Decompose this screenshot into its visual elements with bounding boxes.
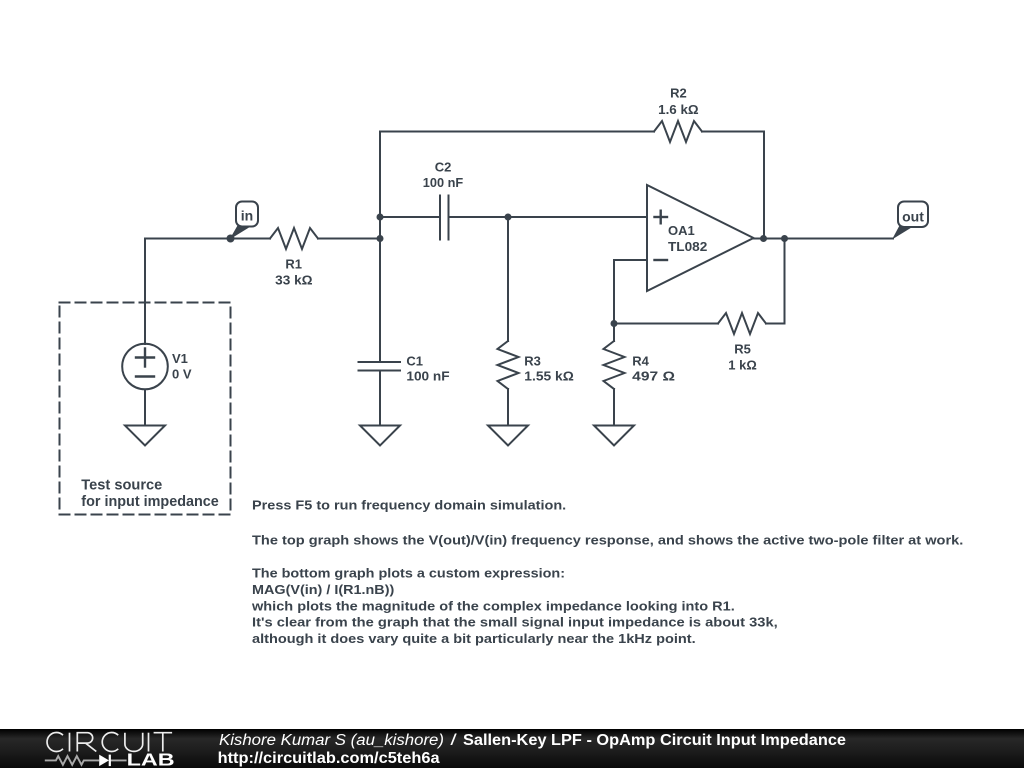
- wire node A down to R3: [507, 217, 509, 341]
- wire minus input down to R4: [613, 260, 615, 341]
- svg-text:Kishore Kumar S (au_kishore) /: Kishore Kumar S (au_kishore) / Sallen-Ke…: [219, 732, 846, 749]
- wire feedback node to R5: [614, 323, 718, 325]
- svg-text:R4: R4: [632, 353, 649, 368]
- resistor R4: [604, 341, 625, 389]
- wire V1 bottom lead: [144, 390, 146, 426]
- ground for R3: [488, 426, 528, 446]
- svg-text:Test source: Test source: [81, 478, 162, 494]
- ground for V1: [125, 426, 165, 446]
- svg-text:497 Ω: 497 Ω: [632, 369, 675, 384]
- wire output: [754, 238, 894, 240]
- wire top feedback right of R2: [702, 132, 764, 239]
- svg-text:MAG(V(in) / I(R1.nB)): MAG(V(in) / I(R1.nB)): [252, 582, 394, 597]
- svg-text:Press F5 to run frequency doma: Press F5 to run frequency domain simulat…: [252, 498, 566, 513]
- logo resistor-diode row: [45, 756, 127, 765]
- wire node B to C2 left plate: [380, 216, 440, 218]
- svg-text:V1: V1: [172, 351, 188, 366]
- svg-text:It's clear from the graph that: It's clear from the graph that the small…: [252, 615, 778, 630]
- capacitor C1: [359, 362, 401, 371]
- wire input horizontal left: [145, 238, 270, 240]
- svg-text:although it does vary quite a: although it does vary quite a bit partic…: [252, 631, 696, 646]
- junction node B lower: [377, 235, 384, 242]
- svg-text:The bottom graph plots a custo: The bottom graph plots a custom expressi…: [252, 566, 565, 581]
- svg-text:R5: R5: [734, 342, 751, 357]
- svg-text:which plots the magnitude of t: which plots the magnitude of the complex…: [251, 598, 735, 613]
- wire vertical node B to C1: [379, 132, 381, 363]
- flag box in: [236, 202, 258, 227]
- junction output 2: [781, 235, 788, 242]
- junction node A: [505, 214, 512, 221]
- svg-text:1.55 kΩ: 1.55 kΩ: [524, 369, 574, 384]
- junction node B upper: [377, 214, 384, 221]
- ground for R4: [594, 426, 634, 446]
- svg-text:for input impedance: for input impedance: [81, 494, 219, 510]
- wire top feedback left of R2: [380, 131, 654, 133]
- logo wordmark CIRCUIT: [47, 733, 172, 752]
- svg-text:100 nF: 100 nF: [423, 175, 463, 190]
- footer bar: [0, 729, 1024, 768]
- flag tail out: [892, 226, 912, 240]
- svg-text:out: out: [902, 208, 924, 224]
- svg-text:33 kΩ: 33 kΩ: [275, 273, 312, 288]
- test source dashed box: [60, 303, 231, 515]
- junction output 1: [760, 235, 767, 242]
- svg-text:0 V: 0 V: [172, 367, 192, 382]
- wire R3 to ground: [507, 389, 509, 426]
- wire C2 right plate to op-amp plus input: [449, 216, 648, 218]
- svg-text:C1: C1: [406, 353, 423, 368]
- voltage source V1: [122, 344, 168, 390]
- svg-text:LAB: LAB: [127, 749, 175, 768]
- resistor R5: [718, 313, 766, 334]
- wire R1 to node B: [318, 238, 380, 240]
- resistor R1: [270, 228, 318, 249]
- op-amp U1 triangle: [647, 185, 754, 291]
- junction feedback left: [611, 320, 618, 327]
- svg-text:http://circuitlab.com/c5teh6a: http://circuitlab.com/c5teh6a: [218, 750, 440, 767]
- op-amp minus pin mark: [655, 259, 668, 261]
- svg-text:R3: R3: [524, 353, 541, 368]
- resistor R3: [498, 341, 519, 389]
- svg-text:R1: R1: [285, 257, 302, 272]
- op-amp plus pin mark: [655, 211, 668, 224]
- svg-text:The top graph shows the V(out): The top graph shows the V(out)/V(in) fre…: [252, 533, 963, 548]
- svg-text:OA1: OA1: [668, 223, 695, 238]
- svg-text:1 kΩ: 1 kΩ: [728, 358, 757, 373]
- wire C1 to ground: [379, 371, 381, 426]
- ground for C1: [360, 426, 400, 446]
- svg-text:C2: C2: [435, 160, 452, 175]
- svg-text:R2: R2: [670, 86, 687, 101]
- wire op-amp minus input: [614, 259, 647, 261]
- flag box out: [898, 202, 928, 228]
- wire V1 top lead: [144, 239, 146, 345]
- wire R5 right up to output: [766, 239, 785, 324]
- wire R4 to ground: [613, 389, 615, 426]
- svg-text:TL082: TL082: [668, 239, 707, 254]
- capacitor C2: [440, 196, 449, 240]
- logo diode: [99, 755, 110, 767]
- resistor R2: [654, 121, 702, 142]
- node dot in: [227, 235, 235, 243]
- svg-text:100 nF: 100 nF: [406, 369, 449, 384]
- svg-text:1.6 kΩ: 1.6 kΩ: [658, 102, 699, 117]
- flag tail in: [230, 226, 250, 240]
- svg-text:in: in: [241, 208, 253, 224]
